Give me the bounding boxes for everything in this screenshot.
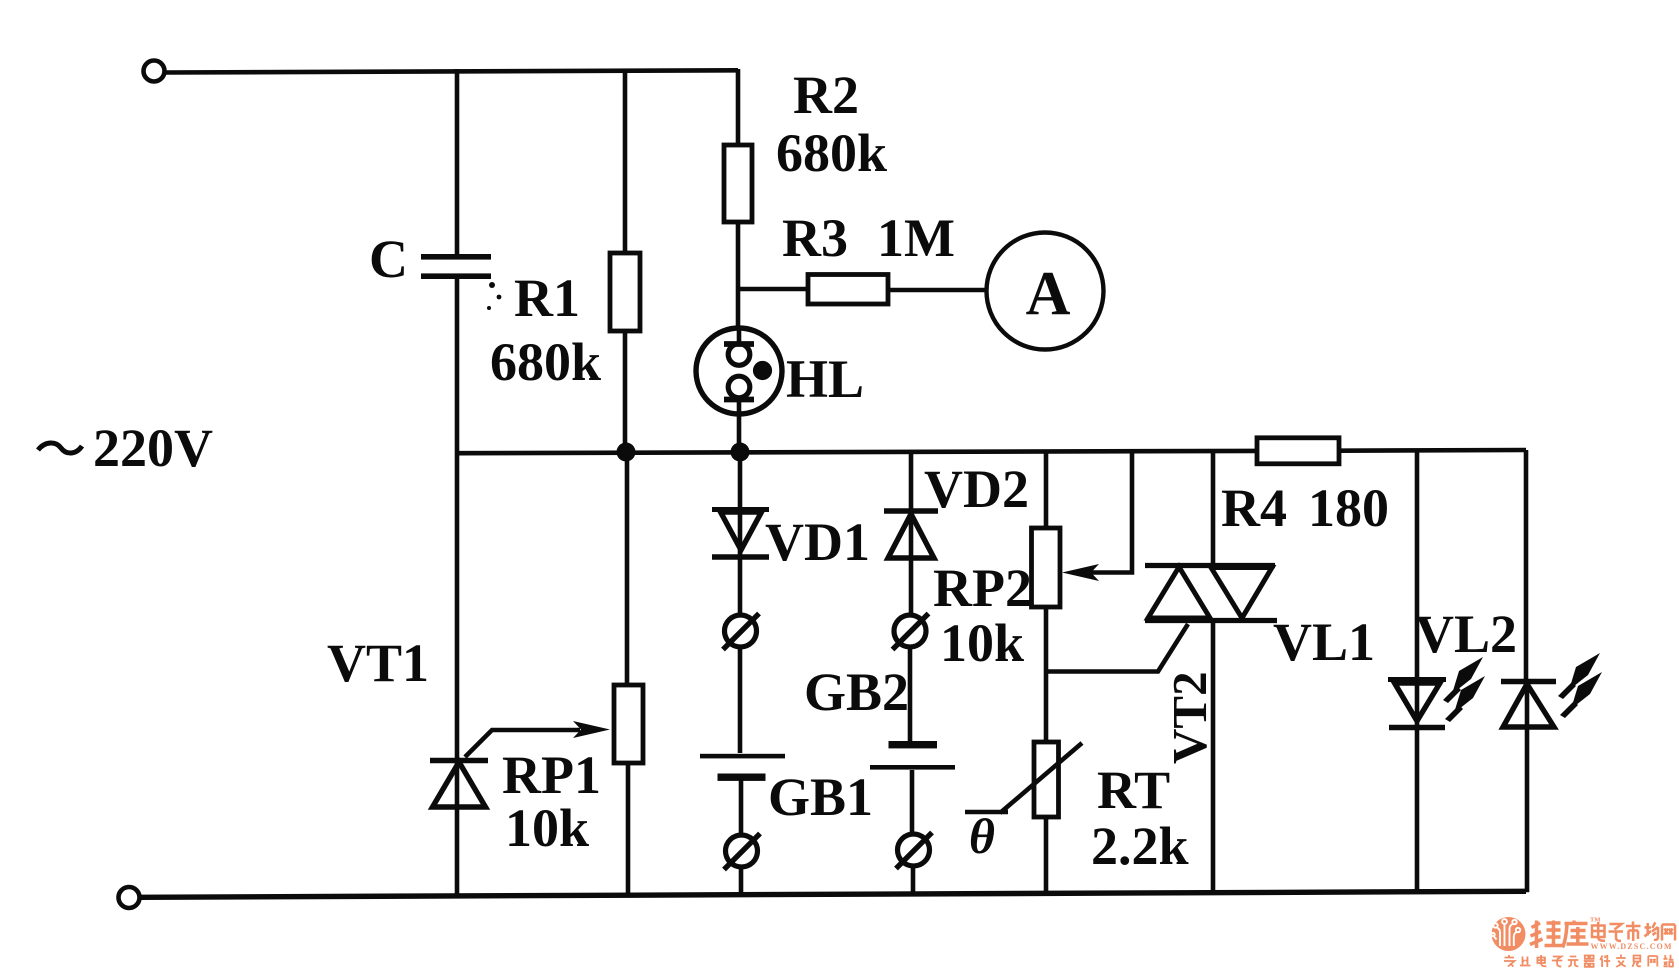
node junction HL-bus — [731, 443, 750, 462]
svg-text:RP2: RP2 — [933, 558, 1032, 618]
wire R2 branch — [736, 69, 741, 145]
svg-text:R4: R4 — [1221, 478, 1287, 538]
arrow RP2 wiper — [1062, 564, 1099, 581]
svg-text:VL1: VL1 — [1273, 612, 1375, 672]
thyristor VT1 — [430, 761, 488, 808]
svg-text:220V: 220V — [93, 418, 213, 478]
label ~220V — [38, 418, 213, 478]
wire GB1 to plug — [739, 780, 744, 836]
light arrows VL2a — [1443, 657, 1485, 722]
connector plug upper (GB2 branch) — [893, 614, 929, 650]
svg-text:A: A — [1026, 260, 1071, 328]
LED VL2b — [1501, 682, 1556, 728]
svg-text:TM: TM — [1590, 917, 1600, 924]
wire VD2 branch — [909, 452, 914, 616]
wire plug to bottom bus — [739, 866, 744, 896]
svg-text:680k: 680k — [490, 332, 601, 392]
svg-text:R3: R3 — [782, 208, 848, 268]
wire main bus — [457, 450, 1526, 453]
wire R1 branch upper — [623, 71, 628, 253]
svg-text:R2: R2 — [793, 65, 859, 125]
connector plug upper (GB1 branch) — [723, 614, 759, 650]
svg-text:RT: RT — [1097, 760, 1170, 820]
neon lamp HL — [696, 328, 782, 414]
wire left vertical upper (to capacitor) — [455, 69, 460, 254]
svg-text:θ: θ — [969, 808, 995, 864]
svg-text:VD2: VD2 — [924, 459, 1029, 519]
thermistor RT — [965, 742, 1082, 817]
svg-text:VT2: VT2 — [1162, 671, 1217, 764]
battery GB1 — [700, 754, 785, 781]
arrow RP1 wiper — [573, 721, 610, 738]
wire left vertical lower (capacitor to bottom bus) — [455, 279, 460, 897]
wire RP2 branch — [1044, 452, 1049, 528]
wire VL2b to bottom bus — [1525, 727, 1530, 892]
capacitor C — [421, 254, 491, 279]
wire R3 feed — [738, 287, 808, 292]
wire top bus — [165, 70, 738, 72]
potentiometer RP2 — [1032, 528, 1061, 607]
wire LED branch — [1415, 452, 1420, 683]
potentiometer RP1 — [614, 685, 643, 763]
wire RP1 branch — [627, 452, 628, 896]
resistor R3 — [808, 275, 888, 305]
connector plug lower (GB1 branch) — [724, 834, 760, 870]
terminal bottom-left — [119, 887, 140, 908]
wire triac anode feed — [1211, 452, 1216, 566]
svg-text:1M: 1M — [877, 208, 955, 268]
resistor R4 — [1257, 438, 1339, 464]
wire plug to bottom bus — [911, 865, 916, 895]
wire RP2 to RT — [1044, 607, 1049, 742]
battery GB2 — [870, 741, 955, 770]
wire R3 to ammeter — [888, 288, 987, 293]
svg-text:10k: 10k — [940, 613, 1024, 673]
wire to GB2 — [908, 647, 913, 741]
wire RT to bottom bus — [1044, 817, 1049, 894]
connector plug lower (GB2 branch) — [896, 833, 932, 869]
speck marks — [489, 282, 495, 288]
wire triac to bottom bus — [1211, 620, 1216, 894]
wire R1 to bus — [623, 331, 628, 452]
node junction R1-bus — [617, 443, 636, 462]
wire right edge upper — [1524, 450, 1529, 681]
svg-text:VD1: VD1 — [765, 512, 870, 572]
wire HL to bus — [737, 414, 742, 452]
diode VD2 — [884, 511, 938, 558]
LED VL2a — [1388, 680, 1446, 728]
ammeter A — [987, 233, 1104, 350]
svg-text:680k: 680k — [776, 123, 887, 183]
wire triac gate — [1047, 624, 1188, 672]
svg-text:C: C — [369, 229, 408, 289]
terminal top-left — [144, 61, 165, 82]
wire to GB1 — [738, 647, 743, 753]
svg-text:VL2: VL2 — [1415, 604, 1517, 664]
wire GB2 to plug — [910, 770, 915, 835]
wire VL2a to bottom bus — [1415, 728, 1420, 893]
triac VL1 — [1145, 566, 1277, 621]
svg-text:RP1: RP1 — [502, 745, 601, 805]
svg-text:GB2: GB2 — [804, 662, 909, 722]
svg-text:GB1: GB1 — [768, 767, 873, 827]
wire VT1 gate to RP1 wiper — [465, 730, 580, 757]
svg-text:180: 180 — [1308, 478, 1389, 538]
diode VD1 — [712, 452, 769, 615]
svg-text:R1: R1 — [514, 268, 580, 328]
wire bottom bus — [140, 891, 1526, 897]
svg-text:VT1: VT1 — [327, 633, 429, 693]
wire R2 to HL — [736, 222, 741, 330]
resistor R1 — [610, 253, 640, 331]
svg-text:10k: 10k — [505, 798, 589, 858]
watermark logo dzsc — [1491, 917, 1675, 968]
svg-text:2.2k: 2.2k — [1091, 816, 1189, 876]
svg-text:WWW.DZSC.COM: WWW.DZSC.COM — [1591, 942, 1673, 951]
wire RP2 wiper feed — [1083, 452, 1132, 573]
resistor R2 — [724, 145, 752, 222]
svg-text:HL: HL — [786, 349, 864, 409]
light arrows VL2b — [1558, 653, 1602, 718]
